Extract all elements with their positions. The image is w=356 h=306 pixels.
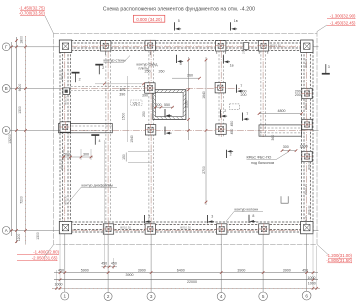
svg-text:ФЛ10.30: ФЛ10.30 bbox=[120, 226, 131, 230]
svg-text:150: 150 bbox=[122, 154, 126, 160]
pad axis2 top bbox=[100, 40, 111, 51]
svg-text:250: 250 bbox=[142, 111, 146, 117]
svg-text:5: 5 bbox=[178, 19, 180, 23]
svg-text:7: 7 bbox=[246, 112, 248, 116]
section flag in pit bbox=[165, 109, 172, 117]
interior dashed wall lines bbox=[71, 51, 266, 223]
tiny strip element labels bbox=[60, 44, 311, 230]
pit excavation outline bbox=[54, 33, 318, 244]
svg-text:Б: Б bbox=[5, 128, 8, 133]
svg-text:1500: 1500 bbox=[121, 113, 125, 121]
label kontur kolonn bbox=[226, 208, 263, 222]
section flag 2 right-mid bbox=[227, 150, 234, 158]
svg-text:2: 2 bbox=[79, 78, 81, 82]
svg-text:3: 3 bbox=[150, 294, 153, 299]
svg-text:2: 2 bbox=[102, 66, 104, 70]
svg-text:-1.300(32.90): -1.300(32.90) bbox=[330, 13, 356, 18]
label kontur diafragmy bbox=[67, 183, 117, 204]
lift pit bbox=[153, 90, 186, 120]
top strip pads: corner 1G bbox=[59, 40, 71, 52]
svg-text:ФЛ10.30: ФЛ10.30 bbox=[60, 69, 64, 80]
red note bottom-left bbox=[17, 245, 60, 261]
right strip pads bbox=[301, 88, 312, 99]
svg-text:В: В bbox=[5, 86, 8, 91]
svg-text:1000: 1000 bbox=[308, 281, 316, 285]
label kontur fund plity bbox=[137, 63, 159, 71]
svg-text:4: 4 bbox=[220, 294, 223, 299]
red note top-right bbox=[317, 13, 356, 33]
svg-text:-1.450(32.45): -1.450(32.45) bbox=[330, 20, 356, 25]
small dims around pit bbox=[95, 69, 174, 142]
svg-text:под балконом: под балконом bbox=[251, 161, 275, 165]
svg-text:4800: 4800 bbox=[278, 109, 286, 113]
svg-text:Схема расположения элементов ф: Схема расположения элементов фундаментов… bbox=[103, 6, 255, 12]
svg-text:22000: 22000 bbox=[187, 280, 197, 284]
dims near axis4 bbox=[230, 89, 308, 152]
bottom total dim line bbox=[54, 276, 318, 284]
svg-text:ФЛ8.30: ФЛ8.30 bbox=[63, 195, 67, 205]
svg-text:2001950: 2001950 bbox=[242, 42, 246, 54]
stub lines below top pads bbox=[105, 52, 107, 56]
svg-text:ФЛ10.30: ФЛ10.30 bbox=[304, 184, 308, 195]
svg-text:200: 200 bbox=[295, 93, 301, 97]
section flag 1a bbox=[223, 55, 233, 67]
svg-text:1300: 1300 bbox=[18, 106, 22, 114]
svg-text:7: 7 bbox=[240, 84, 242, 88]
section flag 7 bbox=[237, 84, 244, 93]
svg-text:2: 2 bbox=[230, 153, 232, 157]
svg-text:5: 5 bbox=[262, 294, 265, 299]
svg-text:3: 3 bbox=[211, 214, 213, 218]
section flag 5 top bbox=[175, 19, 182, 31]
axis bubbles bottom bbox=[61, 291, 311, 300]
micro dim 450 450 bbox=[101, 261, 133, 276]
svg-text:2: 2 bbox=[224, 109, 226, 113]
svg-text:-1.400(32.80): -1.400(32.80) bbox=[33, 250, 59, 255]
svg-text:5: 5 bbox=[180, 62, 182, 66]
red note top-left bbox=[19, 6, 54, 34]
bottom extension lines bbox=[56, 140, 316, 290]
svg-text:ФЛ8.30: ФЛ8.30 bbox=[307, 160, 311, 170]
svg-text:1540: 1540 bbox=[130, 135, 134, 143]
svg-text:6400: 6400 bbox=[177, 268, 185, 272]
small dims below strip B bbox=[61, 149, 93, 160]
svg-text:3: 3 bbox=[328, 65, 330, 69]
interior pad 3/V at pit corner bbox=[144, 82, 155, 93]
svg-text:450: 450 bbox=[230, 121, 234, 127]
bottom dim chain line bbox=[54, 268, 318, 274]
svg-text:450: 450 bbox=[302, 268, 308, 272]
axis lines red dash-dot bbox=[60, 41, 313, 233]
svg-text:500: 500 bbox=[64, 153, 70, 157]
pad axis3 top bbox=[145, 40, 156, 51]
svg-text:1в: 1в bbox=[230, 64, 234, 68]
interior pad 3/B bbox=[145, 124, 156, 135]
svg-text:КФБС ФБС-ПО: КФБС ФБС-ПО bbox=[247, 156, 272, 160]
svg-text:450: 450 bbox=[230, 129, 234, 135]
svg-text:1в: 1в bbox=[234, 19, 238, 23]
section flag 1 right bbox=[322, 64, 330, 75]
svg-text:контур колонн: контур колонн bbox=[235, 208, 259, 212]
svg-text:250: 250 bbox=[145, 69, 151, 73]
section flag 5 bottom bbox=[145, 214, 152, 223]
svg-text:ФЛ8.30: ФЛ8.30 bbox=[307, 205, 311, 215]
svg-text:УД-2: УД-2 bbox=[132, 101, 140, 105]
mid vertical dim lines bbox=[172, 57, 207, 205]
small dashed block bbox=[230, 104, 240, 110]
svg-text:1300: 1300 bbox=[36, 232, 40, 240]
red artifacts overlay on strips bbox=[60, 45, 313, 230]
interior pad 4/V bbox=[215, 82, 226, 93]
axis extension stubs to bubbles bbox=[10, 47, 319, 293]
section flag 7b bbox=[243, 112, 250, 121]
section flag 4 below strip B bbox=[91, 134, 99, 145]
svg-text:ФЛ8.30: ФЛ8.30 bbox=[63, 95, 67, 105]
svg-text:450: 450 bbox=[111, 261, 117, 265]
svg-text:8: 8 bbox=[252, 214, 254, 218]
svg-text:1200: 1200 bbox=[17, 234, 21, 242]
svg-text:7200: 7200 bbox=[20, 196, 24, 204]
section flag 1v top bbox=[231, 19, 238, 31]
section flag small bbox=[95, 64, 103, 75]
svg-text:1800: 1800 bbox=[20, 36, 24, 44]
svg-text:ФЛ10.30: ФЛ10.30 bbox=[180, 226, 191, 230]
elevation box 0.000 bbox=[133, 15, 164, 22]
svg-text:550: 550 bbox=[164, 103, 170, 107]
svg-text:3900: 3900 bbox=[283, 268, 291, 272]
svg-text:200: 200 bbox=[241, 93, 247, 97]
svg-text:ФЛ10.30: ФЛ10.30 bbox=[60, 159, 64, 170]
red note bottom-right bbox=[317, 244, 353, 262]
left dim lines bbox=[8, 36, 27, 244]
svg-text:360: 360 bbox=[271, 135, 275, 141]
svg-text:ФЛ8.30: ФЛ8.30 bbox=[304, 58, 308, 68]
axis bubbles left bbox=[2, 43, 10, 234]
label KFBS bbox=[247, 152, 290, 166]
svg-text:450: 450 bbox=[101, 261, 107, 265]
interior strip footing axis B right bbox=[259, 125, 302, 136]
svg-text:4: 4 bbox=[99, 139, 101, 143]
svg-text:300: 300 bbox=[83, 153, 89, 157]
joint small bbox=[244, 43, 249, 50]
svg-text:6: 6 bbox=[305, 293, 308, 298]
bottom outer dim line bbox=[52, 281, 320, 289]
svg-text:2700: 2700 bbox=[202, 166, 206, 174]
svg-text:3900: 3900 bbox=[126, 273, 134, 277]
interior strip footing axis B left bbox=[59, 124, 113, 133]
svg-text:300: 300 bbox=[283, 145, 289, 149]
svg-text:450: 450 bbox=[58, 268, 64, 272]
svg-text:2130: 2130 bbox=[184, 100, 188, 108]
svg-text:1000: 1000 bbox=[55, 283, 63, 287]
corner 6G bbox=[301, 40, 313, 52]
svg-text:3900: 3900 bbox=[138, 268, 146, 272]
svg-text:ФЛ10.30: ФЛ10.30 bbox=[270, 44, 281, 48]
svg-text:0.000 (34.20): 0.000 (34.20) bbox=[136, 17, 162, 22]
svg-text:-1.800(31.50): -1.800(31.50) bbox=[326, 258, 352, 263]
svg-text:5: 5 bbox=[148, 214, 150, 218]
bottom strip pads bbox=[59, 221, 71, 233]
svg-text:6000: 6000 bbox=[18, 84, 22, 92]
U bracket bbox=[281, 196, 288, 203]
svg-text:260: 260 bbox=[187, 73, 193, 77]
pad axis5 top bbox=[258, 40, 269, 51]
svg-text:ФЛ10.30: ФЛ10.30 bbox=[304, 99, 308, 110]
svg-text:390: 390 bbox=[142, 94, 148, 98]
svg-text:1: 1 bbox=[64, 294, 67, 299]
svg-text:2: 2 bbox=[107, 294, 110, 299]
svg-text:5900: 5900 bbox=[81, 268, 89, 272]
svg-text:ФЛ8.30: ФЛ8.30 bbox=[304, 215, 308, 225]
svg-text:1640: 1640 bbox=[202, 91, 206, 99]
svg-text:А: А bbox=[5, 228, 8, 233]
svg-text:контур стены: контур стены bbox=[104, 59, 126, 63]
section flag 2 mid bbox=[221, 109, 228, 118]
opening marker bbox=[126, 152, 152, 163]
svg-text:3900: 3900 bbox=[237, 268, 245, 272]
svg-text:260: 260 bbox=[159, 69, 165, 73]
wall strip dashed edges bbox=[60, 41, 313, 233]
svg-text:13200: 13200 bbox=[8, 134, 12, 144]
svg-text:1000: 1000 bbox=[308, 276, 316, 280]
section flag 2 left bbox=[72, 72, 80, 83]
pad axis4 top bbox=[215, 40, 226, 51]
svg-text:контур диафрагмы: контур диафрагмы bbox=[82, 183, 114, 187]
svg-text:300: 300 bbox=[119, 88, 125, 92]
svg-text:390: 390 bbox=[119, 93, 125, 97]
interior pad 4/B bbox=[215, 123, 226, 134]
section flag 5 below top strip bbox=[177, 55, 184, 66]
section flag below pit bbox=[165, 127, 172, 135]
svg-text:-0.700(33.50): -0.700(33.50) bbox=[19, 11, 45, 16]
svg-text:1600: 1600 bbox=[300, 145, 308, 149]
left strip pad axis B bbox=[59, 121, 70, 132]
left wall junction at V bbox=[63, 88, 70, 95]
svg-text:ФЛ8: ФЛ8 bbox=[307, 89, 311, 95]
section flag 8 bbox=[249, 214, 256, 223]
section flag 3 bottom bbox=[208, 214, 215, 223]
label kontur steny bbox=[104, 56, 131, 63]
